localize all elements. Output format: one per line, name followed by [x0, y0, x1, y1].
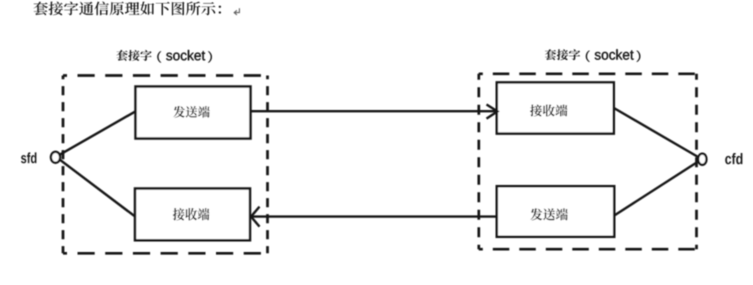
node label: left socket caption 套接字 [116, 50, 151, 61]
node label: right caption ) [636, 51, 640, 62]
node sfd circle [51, 152, 60, 163]
wire: right sender box to cfd node (diagonal) [614, 161, 700, 216]
left socket dashed box [63, 76, 268, 254]
node cfd circle [698, 154, 706, 165]
label cfd [725, 153, 742, 164]
paragraph return mark [234, 8, 239, 15]
left sender box 发送端 [136, 87, 251, 139]
label sfd [21, 152, 36, 163]
arrowhead pointing left into left receiver [251, 207, 260, 227]
node label: right caption ( [586, 51, 590, 62]
right sender box 发送端 [497, 186, 614, 237]
title text: 套接字通信原理如下图所示： [33, 2, 221, 16]
wire: top arrow line left sender to right receiver [251, 110, 497, 112]
wire: bottom arrow line right sender to left receiver [252, 215, 498, 217]
wire: right receiver box to cfd node (diagonal) [613, 108, 699, 158]
arrowhead pointing right into right receiver [487, 105, 498, 119]
wire: sfd node to left sender box (diagonal) [60, 111, 137, 155]
node label: left caption socket [166, 50, 205, 60]
node label: left caption ) [208, 51, 212, 62]
node label: right caption socket [595, 49, 634, 59]
right socket dashed box [479, 74, 697, 249]
node label: left caption ( [157, 51, 161, 62]
left receiver box 接收端 [135, 189, 250, 241]
right receiver box 接收端 [497, 82, 614, 133]
node label: right socket caption 套接字 [545, 49, 580, 60]
wire: sfd node to left receiver box (diagonal) [60, 160, 137, 218]
